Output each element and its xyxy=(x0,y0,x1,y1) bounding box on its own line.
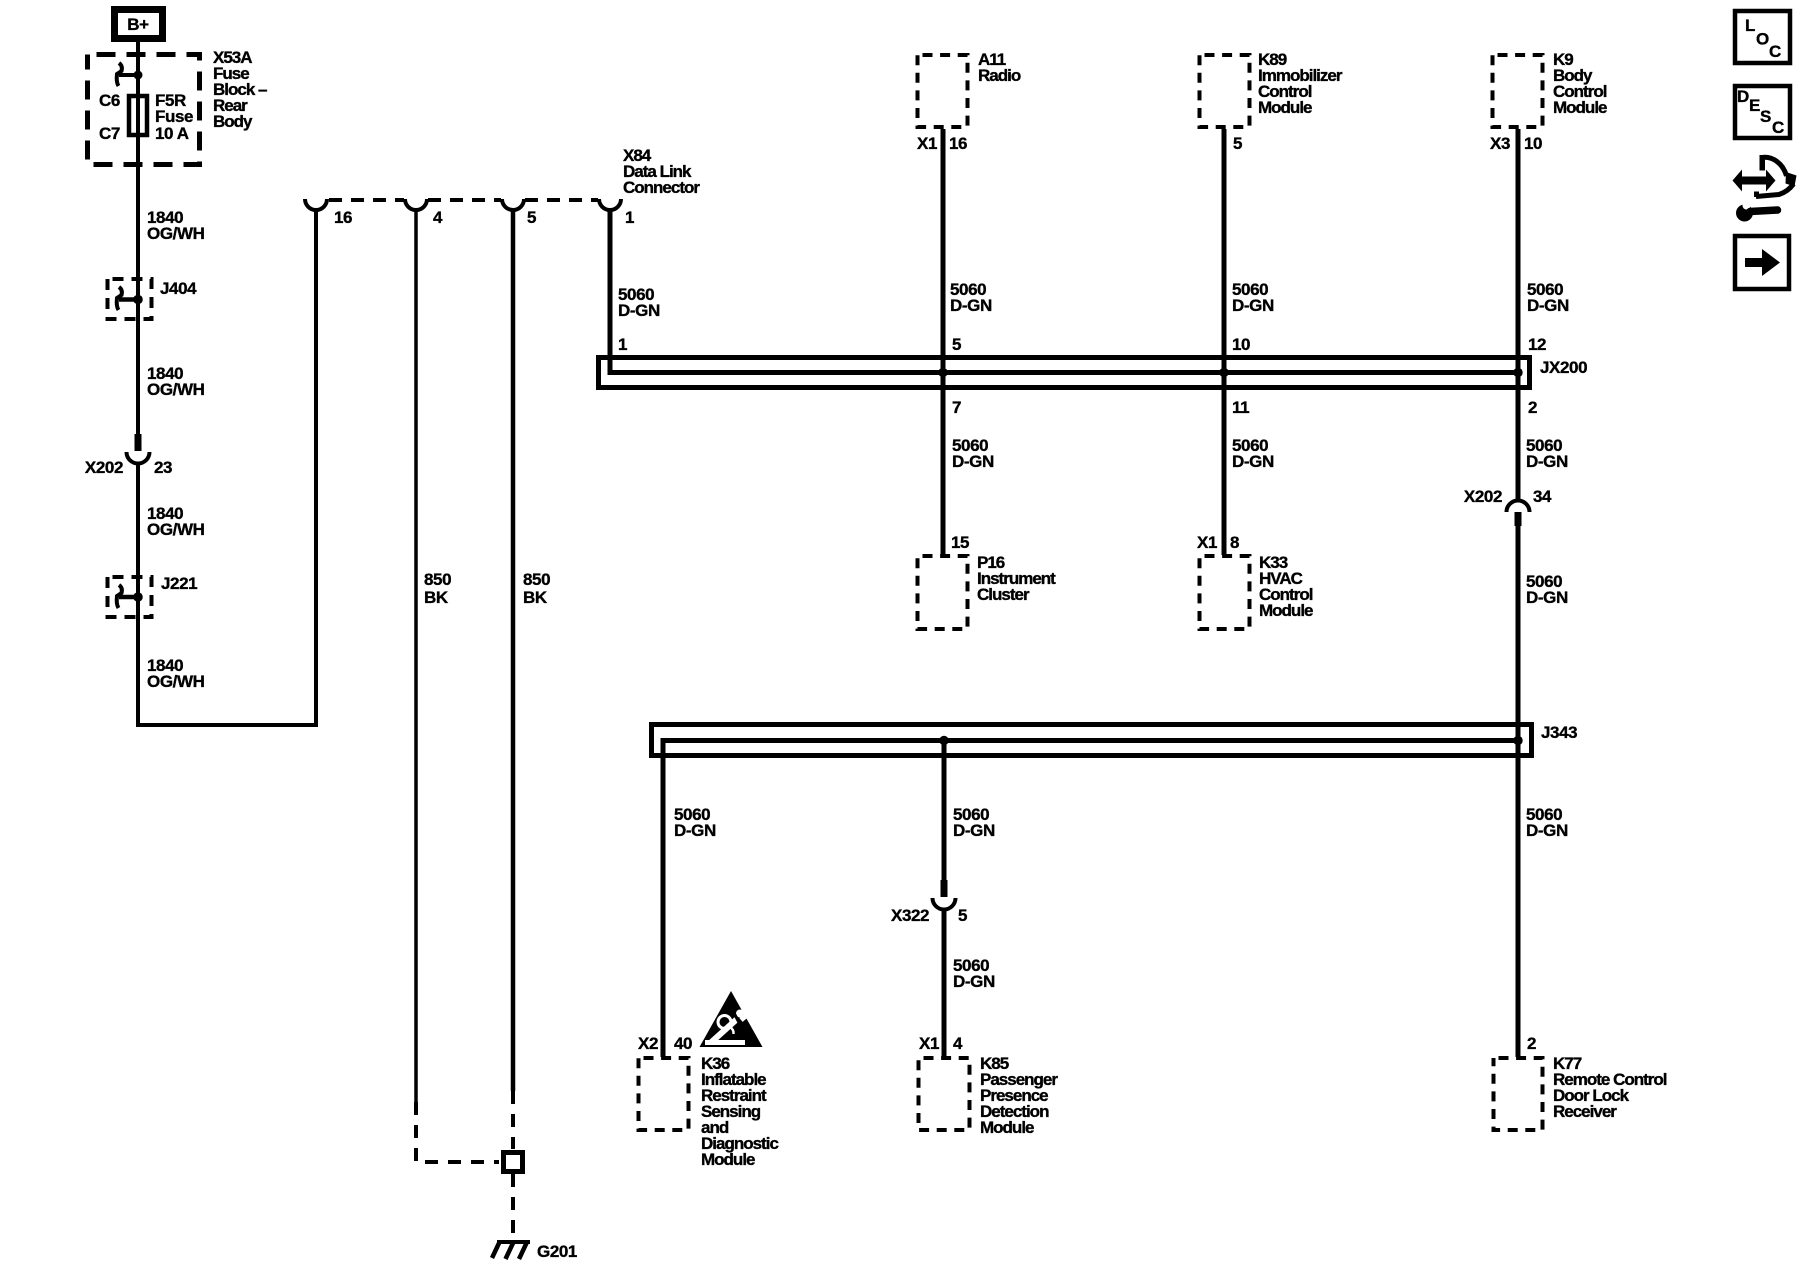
SRS warning triangle xyxy=(700,991,763,1047)
wire label 5060 D-GN (K9 below bus) xyxy=(1526,436,1568,471)
svg-text:JX200: JX200 xyxy=(1540,358,1587,377)
door lock receiver K77 dashed box xyxy=(1494,1058,1543,1130)
wire label 5060 D-GN (K9 upper) xyxy=(1527,280,1569,315)
wire X202 through J221 down xyxy=(136,462,140,619)
wire J343 down to X322 xyxy=(942,740,947,881)
instrument cluster P16 dashed box xyxy=(918,556,968,629)
svg-text:10: 10 xyxy=(1524,134,1542,153)
wire label 5060 D-GN (J343 to K77) xyxy=(1526,805,1568,840)
svg-text:5: 5 xyxy=(952,335,961,354)
immobilizer K89 dashed box xyxy=(1200,55,1250,127)
svg-text:J221: J221 xyxy=(161,574,197,593)
wire J221 down, right, and up to DLC pin 16 xyxy=(138,210,316,725)
wire X322 down to K85 xyxy=(942,908,947,1057)
wire DLC pin 4 down (850 BK) xyxy=(414,210,418,1102)
svg-text:10: 10 xyxy=(1232,335,1250,354)
svg-text:BK: BK xyxy=(523,588,548,607)
wire label 850 BK (right) xyxy=(523,570,550,607)
wire label 5060 D-GN (J343 to X322) xyxy=(953,805,995,840)
inline connector X202 pin 23 xyxy=(127,434,150,464)
junction node on JX200 at A11 wire xyxy=(938,368,947,377)
svg-text:Module: Module xyxy=(1259,601,1313,620)
label K89 Immobilizer Control Module xyxy=(1258,50,1343,117)
svg-text:D-GN: D-GN xyxy=(1232,296,1274,315)
dashed wire pin4 to splice xyxy=(416,1102,499,1162)
DLC pin 16 socket xyxy=(305,199,327,210)
svg-text:2: 2 xyxy=(1527,1034,1536,1053)
radio A11 dashed box xyxy=(918,55,968,127)
svg-text:L: L xyxy=(1745,16,1755,35)
svg-text:Module: Module xyxy=(1553,98,1607,117)
DLC dashed housing line segment 4-5 xyxy=(428,198,501,202)
fuse block X53A dashed box xyxy=(88,55,200,165)
svg-text:OG/WH: OG/WH xyxy=(147,520,205,539)
svg-text:X202: X202 xyxy=(85,458,123,477)
svg-text:D-GN: D-GN xyxy=(618,301,660,320)
wire through fuse block and J404 down to X202 xyxy=(136,52,140,435)
wire label 5060 D-GN (X202-34 to J343) xyxy=(1526,572,1568,607)
wire A11 down to P16 xyxy=(941,129,946,555)
junction node on JX200 at K9 wire xyxy=(1513,368,1522,377)
svg-text:D-GN: D-GN xyxy=(953,821,995,840)
wire X202-34 down to J343 xyxy=(1516,526,1521,1057)
ground symbol G201 xyxy=(492,1241,530,1259)
svg-text:C6: C6 xyxy=(99,91,120,110)
svg-text:D-GN: D-GN xyxy=(1527,296,1569,315)
bus splice pack J343 outline xyxy=(652,725,1532,756)
svg-text:34: 34 xyxy=(1533,487,1552,506)
svg-text:5: 5 xyxy=(958,906,967,925)
svg-text:Module: Module xyxy=(1258,98,1312,117)
junction node on J343 at K9 wire xyxy=(1513,736,1522,745)
svg-text:D-GN: D-GN xyxy=(953,972,995,991)
label F5R Fuse 10 A xyxy=(155,91,193,143)
clip symbol inside J404 xyxy=(117,287,143,310)
next page arrow box xyxy=(1735,236,1789,289)
svg-text:D-GN: D-GN xyxy=(674,821,716,840)
svg-text:OG/WH: OG/WH xyxy=(147,672,205,691)
svg-text:40: 40 xyxy=(674,1034,692,1053)
svg-text:X1: X1 xyxy=(1197,533,1217,552)
junction node on JX200 at K89 wire xyxy=(1219,368,1228,377)
svg-text:G201: G201 xyxy=(537,1242,577,1261)
bus connector JX200 outline xyxy=(599,358,1530,388)
label K9 Body Control Module xyxy=(1553,50,1607,117)
data link connector X84 label xyxy=(623,146,700,197)
DLC dashed housing line segment 5-1 xyxy=(525,198,598,202)
body control module K9 dashed box xyxy=(1493,55,1543,127)
splice block symbol xyxy=(504,1153,523,1172)
wire DLC pin 1 down to bus JX200 xyxy=(610,210,1519,373)
DLC dashed housing line segment 16-4 xyxy=(329,198,404,202)
svg-text:S: S xyxy=(1760,107,1771,126)
splice J221 dashed box xyxy=(108,577,152,617)
svg-text:X322: X322 xyxy=(891,906,929,925)
svg-text:J404: J404 xyxy=(160,279,197,298)
wire label 1840 OG/WH (3) xyxy=(147,504,205,539)
svg-text:Body: Body xyxy=(213,112,253,131)
label K77 Remote Control Door Lock Receiver xyxy=(1553,1054,1667,1121)
svg-text:1: 1 xyxy=(625,208,634,227)
svg-text:1: 1 xyxy=(618,335,627,354)
wire label 5060 D-GN (A11 upper) xyxy=(950,280,992,315)
junction node on J343 at X322 wire xyxy=(939,736,948,745)
svg-text:C7: C7 xyxy=(99,124,120,143)
svg-text:X3: X3 xyxy=(1490,134,1510,153)
clip symbol inside J221 xyxy=(117,585,143,608)
svg-text:O: O xyxy=(1756,30,1769,49)
svg-text:D-GN: D-GN xyxy=(950,296,992,315)
svg-text:D-GN: D-GN xyxy=(1526,821,1568,840)
svg-text:15: 15 xyxy=(951,533,969,552)
DLC pin 1 socket xyxy=(599,199,621,210)
fuse F5R symbol xyxy=(129,96,147,135)
wire label 5060 D-GN (K89 upper) xyxy=(1232,280,1274,315)
wire label 5060 D-GN (to P16) xyxy=(952,436,994,471)
label A11 Radio xyxy=(978,50,1021,85)
dashed wire splice to ground xyxy=(511,1174,515,1240)
LOC navigation box xyxy=(1735,11,1790,63)
HVAC control module K33 dashed box xyxy=(1200,556,1250,629)
svg-text:C: C xyxy=(1772,118,1784,137)
inline connector X322 pin 5 xyxy=(933,880,956,910)
inline connector X202 pin 34 xyxy=(1507,501,1530,527)
svg-text:D-GN: D-GN xyxy=(1232,452,1274,471)
svg-text:16: 16 xyxy=(334,208,352,227)
svg-text:D-GN: D-GN xyxy=(952,452,994,471)
svg-text:23: 23 xyxy=(154,458,172,477)
svg-text:Receiver: Receiver xyxy=(1553,1102,1617,1121)
svg-text:X1: X1 xyxy=(919,1034,939,1053)
label K85 Passenger Presence Detection Module xyxy=(980,1054,1058,1137)
svg-text:BK: BK xyxy=(424,588,449,607)
svg-text:X2: X2 xyxy=(638,1034,658,1053)
svg-text:5: 5 xyxy=(527,208,536,227)
svg-text:11: 11 xyxy=(1232,398,1249,417)
svg-text:Connector: Connector xyxy=(623,178,700,197)
DESC navigation box xyxy=(1735,86,1790,138)
wire label 1840 OG/WH (1) xyxy=(147,208,205,243)
svg-text:D: D xyxy=(1737,87,1749,106)
svg-text:OG/WH: OG/WH xyxy=(147,224,205,243)
svg-text:D-GN: D-GN xyxy=(1526,452,1568,471)
DLC pin 5 socket xyxy=(502,199,524,210)
svg-text:12: 12 xyxy=(1528,335,1546,354)
svg-text:7: 7 xyxy=(952,398,961,417)
svg-text:Radio: Radio xyxy=(978,66,1021,85)
battery feed symbol B+ xyxy=(115,10,163,39)
wire label 5060 D-GN (to K33) xyxy=(1232,436,1274,471)
wire label 1840 OG/WH (2) xyxy=(147,364,205,399)
wire label 5060 D-GN (pin 1) xyxy=(618,285,660,320)
wire label 850 BK (left) xyxy=(424,570,451,607)
svg-text:C: C xyxy=(1769,42,1781,61)
DLC pin 4 socket xyxy=(405,199,427,210)
wire K89 down to K33 xyxy=(1222,129,1227,555)
wire inside J343 and drop to K36 xyxy=(663,741,1518,1058)
svg-text:10 A: 10 A xyxy=(155,124,189,143)
svg-text:4: 4 xyxy=(433,208,443,227)
svg-text:16: 16 xyxy=(949,134,967,153)
svg-text:Module: Module xyxy=(701,1150,755,1169)
svg-text:850: 850 xyxy=(424,570,451,589)
svg-text:X1: X1 xyxy=(917,134,937,153)
airbag module K36 dashed box xyxy=(639,1058,689,1130)
wire DLC pin 5 down (850 BK) xyxy=(511,210,516,1091)
svg-text:X202: X202 xyxy=(1464,487,1502,506)
svg-text:Module: Module xyxy=(980,1118,1034,1137)
wire K9 down to X202-34 xyxy=(1516,129,1521,501)
wire B+ to fuse block xyxy=(136,41,140,55)
label K36 Inflatable Restraint Sensing and Diagnostic Module xyxy=(701,1054,778,1169)
service tools icon (arrows and wrench) xyxy=(1733,155,1797,222)
svg-text:OG/WH: OG/WH xyxy=(147,380,205,399)
label P16 Instrument Cluster xyxy=(977,553,1056,604)
svg-text:Cluster: Cluster xyxy=(977,585,1030,604)
svg-text:2: 2 xyxy=(1528,398,1537,417)
label K33 HVAC Control Module xyxy=(1259,553,1313,620)
svg-text:4: 4 xyxy=(953,1034,963,1053)
svg-text:D-GN: D-GN xyxy=(1526,588,1568,607)
svg-text:5: 5 xyxy=(1233,134,1242,153)
svg-text:8: 8 xyxy=(1230,533,1239,552)
svg-text:B+: B+ xyxy=(127,15,149,34)
wire label 5060 D-GN (J343 to K36) xyxy=(674,805,716,840)
svg-text:J343: J343 xyxy=(1541,723,1577,742)
svg-text:850: 850 xyxy=(523,570,550,589)
dashed wire pin5 to splice xyxy=(511,1091,515,1149)
wire label 1840 OG/WH (4) xyxy=(147,656,205,691)
svg-text:E: E xyxy=(1749,96,1760,115)
splice J404 dashed box xyxy=(108,279,152,319)
fuse block X53A label xyxy=(213,48,267,131)
wire label 5060 D-GN (X322 to K85) xyxy=(953,956,995,991)
clip symbol at C6 inside fuse block xyxy=(117,63,143,86)
passenger presence module K85 dashed box xyxy=(919,1058,970,1130)
